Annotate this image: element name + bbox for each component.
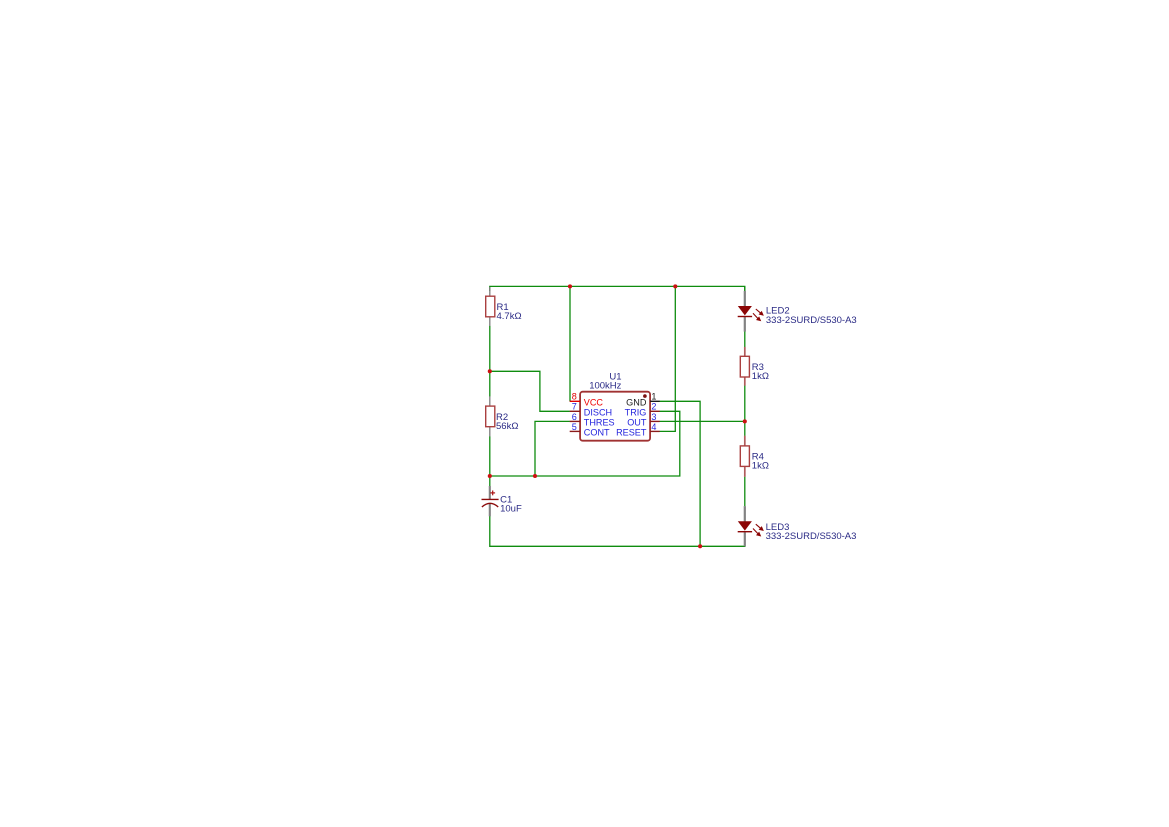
svg-text:THRES: THRES: [584, 418, 615, 428]
svg-text:OUT: OUT: [627, 418, 647, 428]
svg-text:3: 3: [651, 412, 656, 422]
svg-text:100kHz: 100kHz: [589, 381, 621, 392]
svg-text:4.7kΩ: 4.7kΩ: [497, 311, 522, 322]
wire DISCH pin7 net: [490, 371, 570, 411]
wire right rail R3-R4 segment: [744, 386, 746, 436]
wire right rail R4-LED3 segment: [744, 477, 746, 507]
wire top power rail: [490, 286, 745, 291]
wire right rail LED2-R3 segment: [744, 331, 746, 347]
svg-text:1kΩ: 1kΩ: [752, 461, 769, 472]
U1 pin 8 VCC leg: [570, 400, 580, 402]
junction GND at bottom rail: [698, 544, 702, 548]
svg-text:GND: GND: [626, 398, 647, 408]
svg-text:333-2SURD/S530-A3: 333-2SURD/S530-A3: [766, 531, 857, 542]
U1 pin 6 THRES leg: [570, 420, 580, 422]
wire bottom ground rail: [490, 516, 745, 546]
U1 pin 5 CONT leg: [570, 430, 580, 432]
junction OUT at right rail: [743, 419, 747, 423]
resistor R1: [486, 287, 522, 326]
svg-text:5: 5: [572, 422, 577, 432]
U1 pin 1 GND leg: [650, 400, 660, 402]
junction left rail at C1 top: [488, 474, 492, 478]
U1 pin 3 OUT leg: [650, 420, 660, 422]
U1 pin 4 RESET leg: [650, 430, 660, 432]
svg-text:333-2SURD/S530-A3: 333-2SURD/S530-A3: [766, 315, 857, 326]
wire right rail LED2 top stub: [744, 286, 746, 291]
junction top rail at RESET riser: [673, 284, 677, 288]
U1 pin 7 DISCH leg: [570, 410, 580, 412]
resistor R3: [740, 347, 769, 386]
resistor R4: [740, 436, 769, 477]
svg-text:1: 1: [651, 392, 656, 402]
resistor R2: [486, 396, 519, 436]
svg-text:8: 8: [572, 392, 577, 402]
U1 pin1 marker dot: [643, 394, 647, 398]
junction top rail at VCC drop: [568, 284, 572, 288]
svg-text:56kΩ: 56kΩ: [496, 421, 518, 432]
svg-text:RESET: RESET: [616, 428, 647, 438]
capacitor C1: [482, 486, 522, 516]
junction R1-R2 node: [488, 369, 492, 373]
wire THRES pin6 net: [535, 421, 570, 476]
svg-text:2: 2: [651, 402, 656, 412]
wire left rail R1-R2 segment: [489, 326, 491, 397]
LED LED3: [738, 506, 857, 546]
svg-text:DISCH: DISCH: [584, 408, 612, 418]
svg-text:4: 4: [651, 422, 656, 432]
svg-text:1kΩ: 1kΩ: [752, 371, 769, 382]
svg-text:6: 6: [572, 412, 577, 422]
wire THRES-TRIG bottom link: [490, 411, 680, 476]
LED LED2: [738, 291, 857, 332]
junction THRES drop: [533, 474, 537, 478]
wire OUT pin3 net: [660, 420, 745, 422]
svg-text:TRIG: TRIG: [625, 408, 647, 418]
svg-text:10uF: 10uF: [500, 504, 522, 515]
wire VCC pin8 drop: [569, 286, 571, 401]
U1 pin 2 TRIG leg: [650, 410, 660, 412]
svg-text:VCC: VCC: [584, 398, 604, 408]
wire GND pin1 net: [660, 401, 701, 546]
wire left rail R2-C1 segment: [489, 436, 491, 486]
wire RESET pin4 net: [660, 286, 676, 431]
svg-text:CONT: CONT: [584, 428, 610, 438]
op-amp U1 555 timer body: [580, 392, 650, 441]
svg-text:7: 7: [572, 402, 577, 412]
